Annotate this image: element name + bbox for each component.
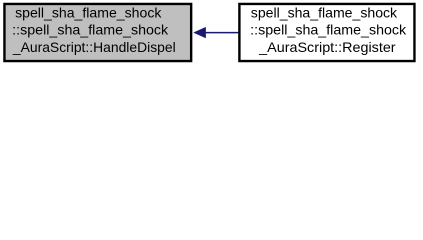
svg-text:_AuraScript::HandleDispel: _AuraScript::HandleDispel bbox=[12, 40, 176, 55]
node N1: spell_sha_flame_shock_AuraScript::HandleDispel (current node, grey fill) bbox=[4, 4, 191, 61]
wire: call-graph edge Register -> HandleDispel (midnightblue line with arrowhead) bbox=[194, 27, 239, 38]
svg-text:spell_sha_flame_shock: spell_sha_flame_shock bbox=[15, 6, 162, 21]
svg-text:spell_sha_flame_shock: spell_sha_flame_shock bbox=[251, 6, 398, 21]
svg-text:_AuraScript::Register: _AuraScript::Register bbox=[258, 40, 396, 55]
svg-text:::spell_sha_flame_shock: ::spell_sha_flame_shock bbox=[12, 23, 168, 38]
node N2: spell_sha_flame_shock_AuraScript::Register (white fill) bbox=[239, 4, 414, 61]
svg-text:::spell_sha_flame_shock: ::spell_sha_flame_shock bbox=[250, 23, 406, 38]
